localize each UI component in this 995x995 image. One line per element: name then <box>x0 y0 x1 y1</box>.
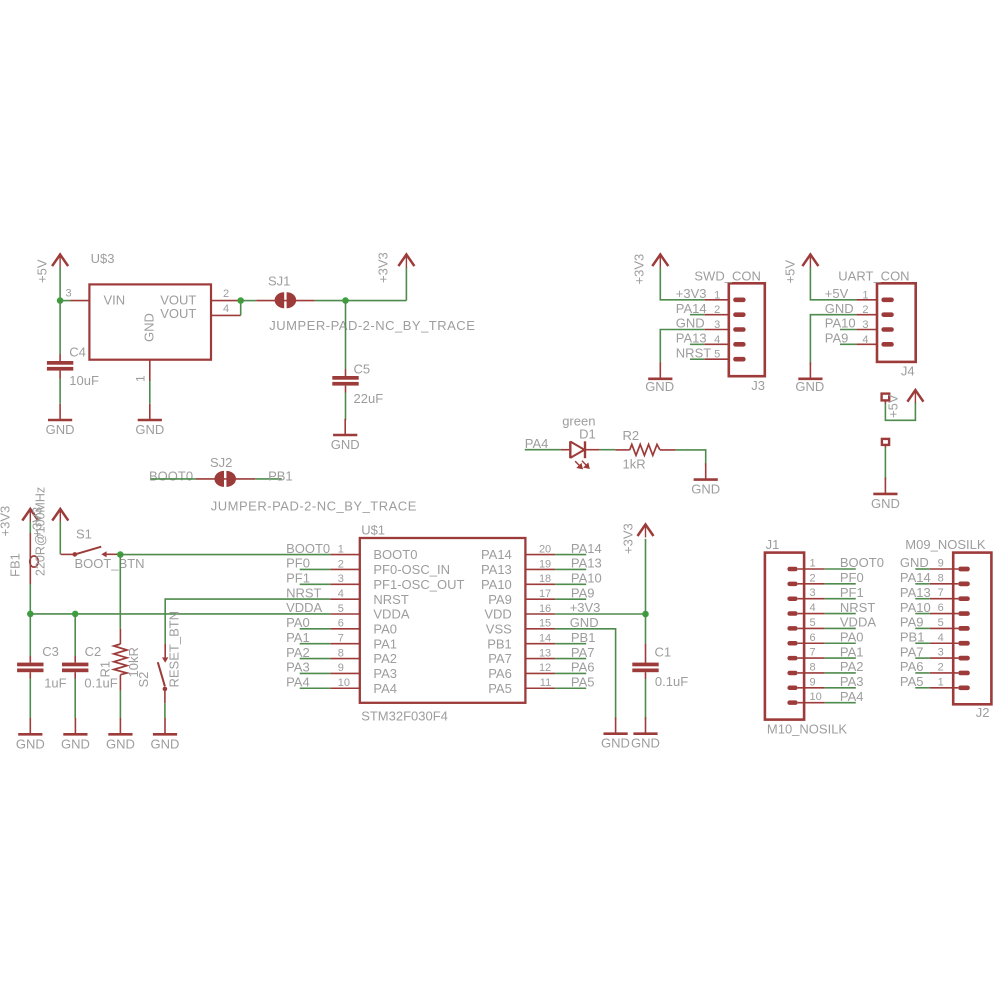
wire +5V arrow to VIN junction <box>59 267 61 301</box>
node junction VOUT <box>237 297 244 304</box>
J2 pin 3 <box>930 657 958 659</box>
svg-text:10: 10 <box>810 691 822 703</box>
U$1 pin 5 (VDDA) <box>330 613 360 615</box>
J2 pin 5 <box>930 627 958 629</box>
wire PA4 to D1 <box>525 449 561 451</box>
svg-text:1: 1 <box>938 676 944 688</box>
svg-text:+5V: +5V <box>35 259 50 283</box>
wire net PB1 <box>555 643 586 645</box>
svg-text:PA10: PA10 <box>481 577 512 592</box>
svg-text:GND: GND <box>645 379 674 394</box>
svg-text:2: 2 <box>714 304 720 316</box>
wire junction to U$3 pin 3 <box>60 300 70 302</box>
microcontroller U$1 <box>360 538 526 703</box>
svg-text:PA7: PA7 <box>488 651 512 666</box>
node junction C2/VDDA <box>72 611 79 618</box>
svg-text:NRST: NRST <box>840 600 875 615</box>
wire net PA6 (J2) <box>915 672 930 674</box>
svg-text:GND: GND <box>871 496 900 511</box>
svg-text:PF1: PF1 <box>840 585 864 600</box>
U$1 pin 16 (VDD) <box>525 613 555 615</box>
wire net PA1 <box>300 643 331 645</box>
J4 pin 1 <box>856 299 877 301</box>
wire net PA9 (J2) <box>915 627 930 629</box>
svg-text:18: 18 <box>539 573 551 585</box>
J3 pin 3 <box>705 329 729 331</box>
svg-text:BOOT0: BOOT0 <box>840 555 884 570</box>
wire net PA13 (J3) <box>690 343 705 345</box>
wire +3V3 arrow to S1 <box>59 522 61 555</box>
wire net PA0 (J1) <box>825 642 856 644</box>
svg-text:1uF: 1uF <box>44 676 66 691</box>
wire FB1 to VDDA bus <box>29 584 31 614</box>
svg-text:1: 1 <box>714 289 720 301</box>
solder jumper SJ1 <box>256 300 285 302</box>
svg-text:SJ2: SJ2 <box>210 455 232 470</box>
wire pad to +5V arrow <box>885 403 915 421</box>
svg-text:J1: J1 <box>766 537 780 552</box>
svg-text:PB1: PB1 <box>487 636 512 651</box>
J3 pin 1 <box>705 299 729 301</box>
svg-text:4: 4 <box>338 588 344 600</box>
J2 pin 8 <box>930 583 958 585</box>
ground <box>705 463 707 479</box>
svg-text:10uF: 10uF <box>69 373 99 388</box>
svg-text:VSS: VSS <box>486 621 512 636</box>
wire net NRST (J3) <box>690 358 705 360</box>
J1 pin 3 <box>798 598 825 600</box>
U$1 pin 11 (PA5) <box>525 687 555 689</box>
svg-text:5: 5 <box>810 617 816 629</box>
J2 pin 9 <box>930 568 958 570</box>
svg-text:PA14: PA14 <box>676 301 707 316</box>
svg-text:PB1: PB1 <box>268 468 293 483</box>
svg-text:+3V3: +3V3 <box>632 254 647 285</box>
svg-text:VDDA: VDDA <box>840 615 876 630</box>
wire U$3 GND pin to ground <box>149 381 151 404</box>
svg-text:PA7: PA7 <box>571 645 595 660</box>
wire net PA9 <box>555 598 586 600</box>
svg-text:+3V3: +3V3 <box>676 286 707 301</box>
svg-text:J4: J4 <box>901 363 915 378</box>
wire SJ1 to +3V3 <box>315 300 407 302</box>
ground <box>809 363 811 379</box>
svg-text:PA9: PA9 <box>488 592 512 607</box>
wire net PA14 <box>555 554 586 556</box>
svg-text:22uF: 22uF <box>354 391 384 406</box>
wire net PA10 (J4) <box>840 329 856 331</box>
svg-text:FB1: FB1 <box>8 553 23 577</box>
svg-text:8: 8 <box>938 572 944 584</box>
power symbol +3V3 P5 <box>645 524 647 538</box>
svg-text:16: 16 <box>539 603 551 615</box>
svg-text:VDD: VDD <box>484 607 511 622</box>
wire R2 to ground <box>676 450 706 465</box>
wire net PA5 (J2) <box>915 687 930 689</box>
svg-text:S1: S1 <box>76 526 92 541</box>
svg-text:PA4: PA4 <box>286 674 310 689</box>
svg-text:5: 5 <box>714 349 720 361</box>
wire net BOOT0 (J1) <box>825 568 856 570</box>
svg-text:PA13: PA13 <box>900 585 931 600</box>
wire +3V3 arrow to FB1 <box>29 522 31 534</box>
svg-text:PA4: PA4 <box>373 681 397 696</box>
wire net PA3 (J1) <box>825 687 856 689</box>
svg-text:JUMPER-PAD-2-NC_BY_TRACE: JUMPER-PAD-2-NC_BY_TRACE <box>269 318 475 333</box>
J3 pin 4 <box>705 343 729 345</box>
power symbol +5V P8 <box>914 390 916 404</box>
svg-text:BOOT0: BOOT0 <box>149 469 193 484</box>
svg-text:GND: GND <box>795 379 824 394</box>
svg-text:J3: J3 <box>751 378 765 393</box>
svg-text:PA7: PA7 <box>900 644 924 659</box>
wire net PA14 (J2) <box>915 583 930 585</box>
J1 pin 9 <box>798 687 825 689</box>
svg-text:4: 4 <box>714 334 720 346</box>
U$1 pin 2 (PF0-OSC_IN) <box>330 568 360 570</box>
svg-text:GND: GND <box>691 482 720 497</box>
svg-text:GND: GND <box>142 313 157 342</box>
svg-text:U$3: U$3 <box>91 251 115 266</box>
wire net PA1 (J1) <box>825 657 856 659</box>
svg-text:BOOT_BTN: BOOT_BTN <box>75 556 145 571</box>
svg-text:PA13: PA13 <box>676 331 707 346</box>
svg-text:PA1: PA1 <box>286 630 310 645</box>
svg-text:19: 19 <box>539 558 551 570</box>
svg-text:S2: S2 <box>136 672 151 688</box>
svg-text:12: 12 <box>539 662 551 674</box>
svg-text:1: 1 <box>862 289 868 301</box>
node junction C5 tap <box>342 297 349 304</box>
ground <box>884 478 886 494</box>
svg-text:4: 4 <box>810 602 816 614</box>
svg-text:5: 5 <box>338 603 344 615</box>
ground <box>164 718 166 734</box>
svg-text:2: 2 <box>862 304 868 316</box>
svg-text:PA6: PA6 <box>571 660 595 675</box>
wire C5 to ground <box>345 393 347 421</box>
svg-text:VDDA: VDDA <box>373 607 409 622</box>
svg-text:+3V3: +3V3 <box>376 252 391 283</box>
svg-text:8: 8 <box>810 661 816 673</box>
wire net PA14 (J3) <box>690 314 705 316</box>
ground <box>74 718 76 734</box>
svg-text:+3V3: +3V3 <box>621 523 636 554</box>
J1 pin 6 <box>798 642 825 644</box>
svg-text:UART_CON: UART_CON <box>838 269 909 284</box>
J1 pin 5 <box>798 627 825 629</box>
wire S2 to ground <box>164 703 166 718</box>
svg-text:PA14: PA14 <box>481 547 512 562</box>
wire net PF0 (J1) <box>825 583 856 585</box>
wire net PA0 <box>300 628 331 630</box>
svg-text:3: 3 <box>938 647 944 659</box>
svg-text:STM32F030F4: STM32F030F4 <box>361 709 448 724</box>
svg-text:D1: D1 <box>579 427 596 442</box>
J1 pin 8 <box>798 672 825 674</box>
J1 pin 4 <box>798 613 825 615</box>
svg-text:6: 6 <box>810 632 816 644</box>
wire net PA4 (J1) <box>825 702 856 704</box>
svg-text:NRST: NRST <box>373 592 408 607</box>
wire net PA6 <box>555 672 586 674</box>
svg-text:7: 7 <box>938 587 944 599</box>
svg-text:GND: GND <box>61 736 90 751</box>
capacitor C4 <box>59 301 61 354</box>
svg-text:U$1: U$1 <box>361 523 385 538</box>
wire net NRST (J1) <box>825 613 856 615</box>
svg-text:RESET_BTN: RESET_BTN <box>167 611 182 688</box>
svg-text:GND: GND <box>570 615 599 630</box>
resistor R1 <box>119 629 121 644</box>
svg-text:PB1: PB1 <box>900 629 925 644</box>
J1 pin 2 <box>798 583 825 585</box>
svg-text:PA2: PA2 <box>840 659 864 674</box>
U$1 pin 14 (PB1) <box>525 643 555 645</box>
svg-text:PA4: PA4 <box>840 689 864 704</box>
svg-text:3: 3 <box>862 319 868 331</box>
svg-text:13: 13 <box>539 647 551 659</box>
svg-text:3: 3 <box>65 288 71 300</box>
svg-text:PA3: PA3 <box>840 674 864 689</box>
pad P$2 (GND) <box>882 439 889 445</box>
svg-text:C2: C2 <box>85 644 102 659</box>
svg-text:PA1: PA1 <box>840 644 864 659</box>
svg-text:2: 2 <box>338 558 344 570</box>
ground <box>149 404 151 420</box>
svg-text:4: 4 <box>938 632 944 644</box>
power symbol +3V3 P4 <box>59 509 61 523</box>
svg-text:15: 15 <box>539 618 551 630</box>
svg-text:GND: GND <box>331 437 360 452</box>
svg-text:SWD_CON: SWD_CON <box>694 269 760 284</box>
svg-text:+3V3: +3V3 <box>570 600 601 615</box>
svg-text:PA14: PA14 <box>571 541 602 556</box>
svg-text:GND: GND <box>151 736 180 751</box>
svg-text:PF0: PF0 <box>286 556 310 571</box>
svg-text:PA3: PA3 <box>286 660 310 675</box>
power symbol +5V P1 <box>59 254 61 268</box>
wire BOOT0 to U$1 pin 1 <box>120 554 330 556</box>
svg-text:PA9: PA9 <box>900 615 924 630</box>
svg-text:VOUT: VOUT <box>160 306 196 321</box>
capacitor C3 <box>29 614 31 656</box>
pin header J1 M10_NOSILK <box>765 553 804 720</box>
svg-text:PF0: PF0 <box>840 570 864 585</box>
wire net PA2 <box>300 658 331 660</box>
wire net PF1 (J1) <box>825 598 856 600</box>
wire net PA10 (J2) <box>915 613 930 615</box>
svg-text:1: 1 <box>134 375 148 382</box>
svg-text:M09_NOSILK: M09_NOSILK <box>905 537 986 552</box>
svg-text:PA13: PA13 <box>571 556 602 571</box>
J4 pin 3 <box>856 329 877 331</box>
svg-text:PA10: PA10 <box>900 600 931 615</box>
svg-text:PA6: PA6 <box>488 666 512 681</box>
svg-text:C4: C4 <box>69 345 86 360</box>
wire net GND (J2) <box>915 568 930 570</box>
svg-text:+5V: +5V <box>783 260 798 284</box>
U$1 pin 10 (PA4) <box>330 687 360 689</box>
ground <box>659 363 661 379</box>
wire +3V3 to J3 pin1 <box>660 267 704 300</box>
ground <box>344 419 346 435</box>
wire VDDA bus <box>30 613 330 615</box>
power symbol +3V3 P2 <box>405 254 407 268</box>
svg-text:PA1: PA1 <box>373 636 397 651</box>
capacitor C5 <box>345 301 347 369</box>
svg-text:PA3: PA3 <box>373 666 397 681</box>
svg-text:PA9: PA9 <box>571 585 595 600</box>
svg-text:VDDA: VDDA <box>286 600 322 615</box>
svg-text:R1: R1 <box>98 661 113 678</box>
svg-text:GND: GND <box>825 301 854 316</box>
capacitor C1 <box>645 614 647 644</box>
ground <box>615 717 617 733</box>
svg-text:C5: C5 <box>354 361 371 376</box>
wire net PF0 <box>300 568 331 570</box>
svg-text:GND: GND <box>106 736 135 751</box>
J4 pin 2 <box>856 314 877 316</box>
U$1 pin 12 (PA6) <box>525 672 555 674</box>
svg-text:PF1: PF1 <box>286 571 310 586</box>
wire net PA4 <box>300 687 331 689</box>
ground <box>59 404 61 420</box>
wire net PA2 (J1) <box>825 672 856 674</box>
svg-text:PA2: PA2 <box>373 651 397 666</box>
svg-text:PA2: PA2 <box>286 645 310 660</box>
svg-text:PA0: PA0 <box>840 629 864 644</box>
svg-text:PA6: PA6 <box>900 659 924 674</box>
capacitor C2 <box>74 614 76 656</box>
switch S1 BOOT_BTN <box>61 553 75 555</box>
pad P$1 (+5V) <box>882 394 890 401</box>
wire C3 to ground <box>29 679 31 719</box>
svg-text:8: 8 <box>338 647 344 659</box>
ferrite bead FB1 <box>29 533 31 584</box>
voltage regulator U$3 <box>71 300 90 302</box>
U$1 pin 18 (PA10) <box>525 583 555 585</box>
svg-text:10: 10 <box>338 677 350 689</box>
wire +5V to J4 pin1 <box>810 267 856 300</box>
svg-text:NRST: NRST <box>676 345 711 360</box>
svg-text:JUMPER-PAD-2-NC_BY_TRACE: JUMPER-PAD-2-NC_BY_TRACE <box>211 499 417 514</box>
wire BOOT0 down to R1 <box>119 555 121 629</box>
svg-text:1: 1 <box>338 543 344 555</box>
J2 pin 1 <box>930 687 958 689</box>
svg-text:VIN: VIN <box>104 292 126 307</box>
ground <box>119 718 121 734</box>
svg-text:GND: GND <box>900 555 929 570</box>
U$1 pin 3 (PF1-OSC_OUT) <box>330 583 360 585</box>
svg-text:PA10: PA10 <box>571 571 602 586</box>
J1 pin 1 <box>798 568 825 570</box>
wire net PA13 <box>555 568 586 570</box>
wire NRST from U$1 <box>165 599 330 644</box>
svg-text:1: 1 <box>810 558 816 570</box>
U$1 pin 19 (PA13) <box>525 568 555 570</box>
svg-text:2: 2 <box>938 661 944 673</box>
svg-text:+3V3: +3V3 <box>0 506 13 537</box>
wire net VDDA (J1) <box>825 627 856 629</box>
svg-text:20: 20 <box>539 543 551 555</box>
J2 pin 7 <box>930 598 958 600</box>
svg-text:PA14: PA14 <box>900 570 931 585</box>
wire net PA10 <box>555 583 586 585</box>
svg-text:6: 6 <box>338 618 344 630</box>
svg-text:NRST: NRST <box>286 585 321 600</box>
svg-text:4: 4 <box>862 334 868 346</box>
svg-text:GND: GND <box>135 422 164 437</box>
svg-text:4: 4 <box>223 303 229 315</box>
wire C2 to ground <box>74 679 76 719</box>
wire net PA5 <box>555 687 586 689</box>
svg-text:GND: GND <box>676 316 705 331</box>
svg-text:PA10: PA10 <box>825 316 856 331</box>
wire net PB1 (J2) <box>915 642 930 644</box>
svg-text:M10_NOSILK: M10_NOSILK <box>767 722 848 737</box>
J1 pin 10 <box>798 702 825 704</box>
solder jumper SJ2 <box>196 478 225 480</box>
svg-text:GND: GND <box>601 736 630 751</box>
U$1 pin 4 (NRST) <box>330 598 360 600</box>
ground <box>29 718 31 734</box>
pin header J3 SWD_CON <box>729 283 765 376</box>
wire +3V3 net from pin 16 <box>555 613 645 615</box>
switch S2 RESET_BTN <box>164 644 166 657</box>
resistor R2 <box>615 449 629 451</box>
power symbol +5V P7 <box>809 254 811 268</box>
svg-text:2: 2 <box>810 572 816 584</box>
wire SJ2 to PB1 <box>255 478 281 480</box>
svg-text:+3V3: +3V3 <box>30 507 45 538</box>
svg-text:C3: C3 <box>42 644 59 659</box>
LED D1 <box>561 449 569 451</box>
node junction BOOT0 <box>117 551 124 558</box>
svg-text:PA0: PA0 <box>286 615 310 630</box>
svg-text:9: 9 <box>338 662 344 674</box>
wire net PA13 (J2) <box>915 598 930 600</box>
wire C1 to ground <box>645 679 647 719</box>
svg-text:0.1uF: 0.1uF <box>655 674 688 689</box>
wire R1 to ground <box>119 691 121 719</box>
node junction +3V3/C1 <box>642 611 649 618</box>
U$1 pin 17 (PA9) <box>525 598 555 600</box>
node junction C3/VDDA <box>27 611 34 618</box>
svg-text:C1: C1 <box>655 645 672 660</box>
wire net PA3 <box>300 672 331 674</box>
svg-text:5: 5 <box>938 617 944 629</box>
power symbol +3V3 P6 <box>659 254 661 268</box>
J2 pin 4 <box>930 642 958 644</box>
U$1 pin 15 (VSS) <box>525 628 555 630</box>
U$1 pin 1 (BOOT0) <box>330 554 360 556</box>
svg-text:PA5: PA5 <box>488 681 512 696</box>
svg-text:R2: R2 <box>623 428 640 443</box>
U$1 pin 7 (PA1) <box>330 643 360 645</box>
wire GND net (J4) <box>810 315 856 365</box>
svg-text:3: 3 <box>810 587 816 599</box>
wire GND net from pin 15 <box>555 629 616 719</box>
svg-text:SJ1: SJ1 <box>268 273 290 288</box>
wire pad to ground <box>884 448 886 480</box>
svg-text:PA5: PA5 <box>571 674 595 689</box>
svg-text:1kR: 1kR <box>623 457 646 472</box>
svg-text:6: 6 <box>938 602 944 614</box>
J1 pin 7 <box>798 657 825 659</box>
wire net PF1 <box>300 583 331 585</box>
svg-text:GND: GND <box>631 736 660 751</box>
